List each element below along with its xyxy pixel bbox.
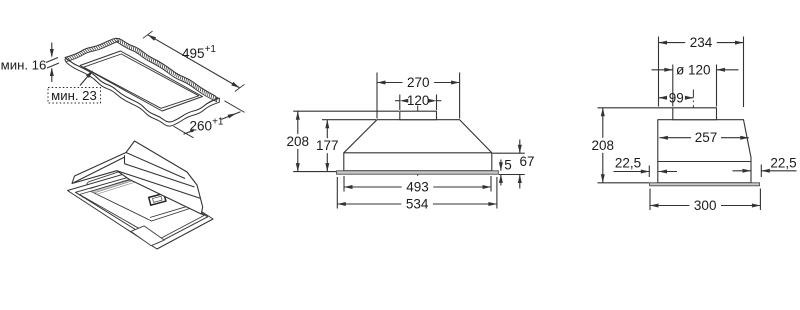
svg-text:300: 300 <box>694 198 717 213</box>
svg-text:534: 534 <box>406 197 429 212</box>
svg-text:177: 177 <box>316 138 339 153</box>
svg-text:22,5: 22,5 <box>615 156 641 171</box>
svg-text:257: 257 <box>695 130 718 145</box>
svg-text:493: 493 <box>406 180 429 195</box>
svg-text:22,5: 22,5 <box>770 156 796 171</box>
svg-text:67: 67 <box>519 154 534 169</box>
svg-text:мин. 23: мин. 23 <box>51 88 97 103</box>
svg-text:208: 208 <box>592 138 615 153</box>
svg-text:234: 234 <box>690 35 713 50</box>
svg-text:120: 120 <box>407 93 430 108</box>
svg-text:99: 99 <box>669 90 684 105</box>
svg-text:208: 208 <box>287 134 310 149</box>
svg-text:270: 270 <box>407 75 430 90</box>
svg-text:ø 120: ø 120 <box>676 62 711 77</box>
svg-text:мин. 16: мин. 16 <box>1 58 47 73</box>
svg-text:5: 5 <box>504 158 512 173</box>
